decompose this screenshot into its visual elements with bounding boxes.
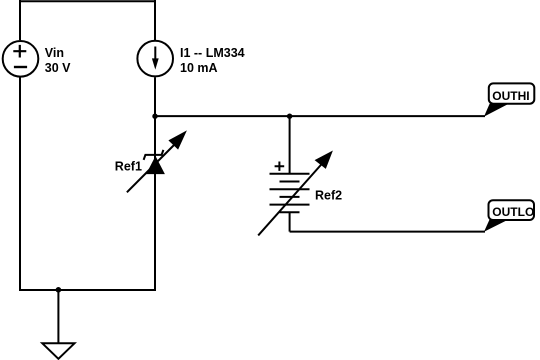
svg-text:10 mA: 10 mA — [180, 61, 218, 75]
adjustable zener diode Ref1 — [127, 130, 187, 192]
current source I1 — [137, 41, 173, 77]
svg-text:OUTLO: OUTLO — [492, 205, 534, 219]
junction OUTHI net at x=289.6 — [287, 114, 292, 119]
wire left vertical upper (top rail to Vin) — [19, 0, 21, 40]
net flag OUTLO — [484, 200, 534, 232]
ground — [42, 343, 74, 359]
wire ground stem — [57, 289, 59, 344]
wire right vertical upper (top rail to I1) — [154, 0, 156, 40]
svg-text:OUTHI: OUTHI — [492, 89, 529, 103]
net flag OUTHI — [484, 83, 534, 116]
wire right vertical lower (I1 through Ref1 to bottom rail) — [154, 77, 156, 291]
junction OUTHI net at x=155 — [152, 114, 157, 119]
wire Ref2 bottom lead — [289, 212, 291, 232]
svg-text:30 V: 30 V — [45, 61, 71, 75]
svg-text:I1 -- LM334: I1 -- LM334 — [180, 46, 245, 60]
wire bottom horizontal rail — [19, 289, 156, 291]
svg-text:Vin: Vin — [45, 46, 64, 60]
adjustable battery Ref2 — [258, 151, 333, 236]
wire left vertical lower (Vin to bottom rail) — [19, 78, 21, 291]
svg-text:Ref1: Ref1 — [115, 159, 142, 173]
junction bottom rail at ground stem — [56, 287, 62, 293]
voltage source Vin — [3, 41, 39, 77]
wire lower horizontal (Ref2 to OUTLO flag) — [290, 231, 485, 233]
wire Ref2 top lead — [289, 116, 291, 174]
svg-text:Ref2: Ref2 — [315, 189, 342, 203]
wire top horizontal (Vin top to I1 top) — [20, 0, 155, 2]
wire mid horizontal (node to OUTHI flag) — [155, 115, 485, 117]
plus polarity mark of Ref2 — [275, 162, 285, 171]
